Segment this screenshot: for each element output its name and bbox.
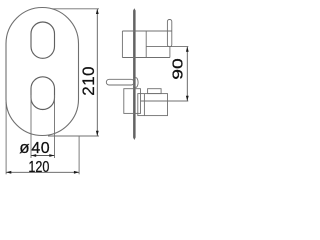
dimension 210: arrow down — [96, 131, 99, 136]
side view: top handle lever bar — [167, 20, 171, 47]
svg-text:90: 90 — [170, 58, 187, 80]
dimension d40: extension line right — [54, 95, 56, 158]
svg-text:40: 40 — [31, 140, 50, 157]
side view: top valve body bottom edge — [122, 57, 169, 59]
dimension 90: dimension line — [186, 47, 188, 101]
front view: oval cover plate — [6, 8, 79, 136]
svg-text:120: 120 — [28, 159, 49, 176]
side view: bottom valve body box — [124, 89, 141, 114]
dimension 120: arrow left — [6, 171, 11, 174]
dimension 120: extension line left — [5, 102, 7, 174]
side view: top valve body left edge — [121, 31, 123, 58]
svg-text:ø: ø — [19, 138, 29, 157]
dimension 90: arrow up — [186, 47, 189, 52]
dimension 210: dimension line — [96, 9, 98, 136]
side view: bottom handle body — [138, 94, 168, 116]
front view: bottom knob — [31, 77, 55, 110]
dimension 210: arrow up — [96, 9, 99, 14]
side view: wall plate edge-on — [133, 8, 136, 140]
side view: stub boss on plate — [134, 78, 138, 88]
side view: bottom handle step — [143, 94, 145, 116]
side view: top handle front right edge — [169, 47, 171, 58]
dimension d40: extension line left — [30, 95, 32, 158]
svg-text:210: 210 — [79, 66, 98, 96]
dimension 210: extension line bottom — [48, 135, 99, 137]
dimension 90: arrow down — [186, 96, 189, 101]
dimension 120: extension line right — [78, 136, 80, 174]
dimension 210: extension line top — [52, 8, 99, 10]
side view: bottom handle top tab — [148, 89, 162, 94]
side view: inlet stub bar into wall — [106, 79, 134, 85]
dimension 90: extension line top — [146, 46, 188, 48]
dimension d40: dimension line — [31, 155, 55, 157]
side view: top handle hub step — [145, 31, 147, 58]
dimension 120: arrow right — [74, 171, 79, 174]
front view: top knob — [31, 22, 55, 58]
dimension 90: extension line bottom — [141, 100, 189, 102]
dimension d40: arrow right — [49, 154, 54, 157]
dimension 120: dimension line — [6, 171, 79, 173]
dimension d40: arrow left — [31, 154, 36, 157]
side view: top valve body top edge — [122, 30, 171, 32]
